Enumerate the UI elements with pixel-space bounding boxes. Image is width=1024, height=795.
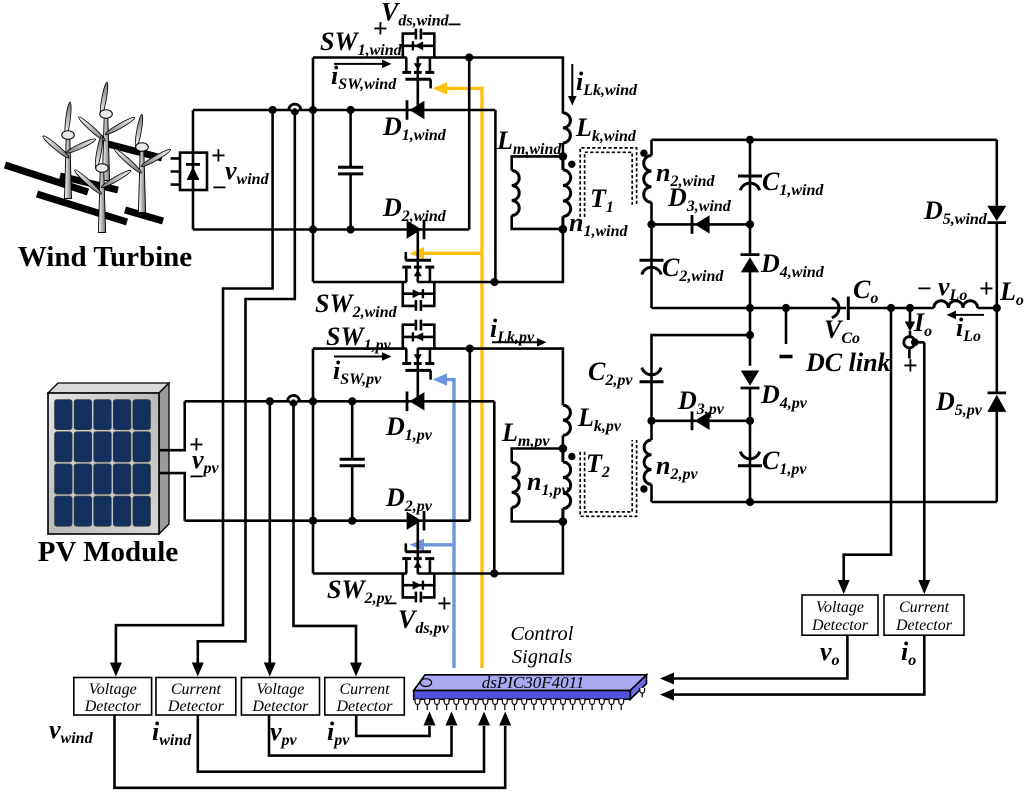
capacitor C1,wind (738, 176, 762, 190)
wire link SW1,pv to D2,pv (468, 349, 471, 521)
control signal trace orange (wind gates) (421, 88, 482, 668)
wire detector feed v,pv (268, 401, 271, 668)
svg-text:Signals: Signals (512, 646, 572, 668)
PV module illustration (48, 383, 169, 534)
wire i,pv detector to chip pin (356, 715, 429, 736)
svg-text:Detector: Detector (84, 698, 142, 715)
wire n2,pv column (650, 421, 653, 502)
svg-text:Wind Turbine: Wind Turbine (18, 241, 193, 273)
svg-text:Voltage: Voltage (816, 599, 864, 616)
wind turbine back-left (41, 102, 96, 199)
control signal trace blue (pv gates) (421, 380, 454, 668)
capacitor wind input filter (338, 167, 363, 174)
box voltage detector pv (241, 678, 319, 716)
wire C2,wind branch (650, 224, 653, 308)
svg-text:Detector: Detector (895, 617, 953, 634)
arrow vo line into chip (660, 673, 674, 685)
capacitor pv input filter (340, 459, 365, 466)
wire v,wind detector to chip pin (115, 715, 506, 788)
wire Lk,pv to node (562, 435, 565, 448)
wire pv + rail (185, 400, 495, 403)
wind turbine top (77, 82, 136, 181)
arrow into detector i,pv (350, 663, 362, 677)
capacitor C2,wind (640, 260, 664, 274)
svg-text:−: − (383, 589, 398, 618)
inductor Lm,wind (512, 171, 520, 216)
svg-text:+: + (211, 141, 226, 170)
inductor Lk,pv (563, 405, 571, 435)
wire wind - rail (193, 228, 469, 231)
inductor Lo (934, 301, 978, 308)
transformer T2 coupling dashes (580, 440, 636, 516)
wire C1,wind D4,wind column (749, 140, 752, 335)
wire SW1,pv drain side (313, 347, 407, 350)
diode D3,wind (692, 215, 710, 234)
wire Lm,wind branch (512, 156, 563, 229)
wire i,wind detector to chip pin (198, 715, 484, 772)
wire SW1,wind drain side (313, 56, 407, 59)
wind turbine front (73, 135, 132, 233)
wire D4,pv C1,pv column (749, 335, 752, 502)
wire SW1,wind source side to Lk,wind (417, 58, 563, 114)
svg-text:−: − (189, 462, 204, 491)
wire link SW1 top to D2 (468, 58, 471, 230)
diode D1,wind (407, 100, 424, 120)
svg-text:+: + (979, 274, 994, 303)
wind turbine right (113, 114, 172, 213)
wire SW1,wind body lead (416, 58, 419, 111)
wire SW1,wind left drop (312, 58, 315, 283)
wire SW2,pv rail right (417, 522, 563, 574)
wire D3,pv branch (652, 419, 751, 422)
mosfet SW1,wind (402, 29, 434, 89)
winding n2,pv (644, 440, 651, 484)
wire pv mid connector (652, 335, 751, 421)
chip pins (415, 699, 623, 710)
svg-text:Detector: Detector (811, 617, 869, 634)
wire dc link minus stub (785, 308, 788, 344)
arrow i,Lk,pv (492, 338, 547, 347)
wire pv - stub (160, 473, 185, 521)
mosfet SW2,pv (402, 543, 434, 602)
wire right rail D5 column (995, 140, 998, 502)
wire wind output top rail (652, 139, 997, 142)
wire detector feed i,wind (198, 111, 295, 668)
diode D5,wind (987, 206, 1006, 223)
svg-text:PV Module: PV Module (38, 536, 179, 568)
blue arrowhead SW1,pv gate (433, 373, 447, 385)
box current detector wind (156, 678, 236, 716)
svg-text:Current: Current (171, 681, 222, 698)
wire dc link minus mark (780, 355, 793, 359)
arrow chip pin feed 4 (499, 712, 511, 726)
svg-text:−: − (917, 274, 932, 303)
winding n2,wind (644, 156, 652, 203)
wire SW2,pv body lead (416, 521, 419, 574)
wire link D1,pv to SW2,pv rail (493, 401, 496, 573)
wire SW2,wind body lead (416, 230, 419, 283)
wire SW1,pv source side to Lk,pv (417, 349, 563, 406)
arrow i,SW,wind (334, 60, 392, 69)
wire wind + rail (193, 109, 495, 112)
wire SW1,pv body lead (416, 349, 419, 402)
diode D2,wind (407, 220, 424, 240)
arrow into detector v,pv (264, 663, 276, 677)
svg-text:Current: Current (899, 599, 950, 616)
wire dc link mid rail (652, 307, 997, 310)
microcontroller dsPIC30F4011 chip body (414, 675, 647, 700)
mosfet SW2,wind (402, 252, 434, 311)
svg-text:+: + (903, 351, 918, 380)
wire detector feed i,pv (294, 402, 357, 668)
wire D3,wind branch (652, 223, 751, 226)
wire rectifier ac stubs (171, 158, 180, 184)
svg-text:−: − (447, 10, 462, 39)
wire SW1,pv left drop (312, 349, 315, 574)
arrow into detector i,wind (192, 663, 204, 677)
wire SW2,wind rail right (417, 229, 563, 282)
wire pv - rail (185, 519, 470, 522)
box current detector pv (325, 678, 405, 716)
svg-text:Current: Current (339, 681, 390, 698)
blue arrowhead SW2,pv gate (410, 539, 424, 551)
wire wind rectifier loop left (192, 110, 195, 230)
svg-text:−: − (212, 173, 227, 202)
hop and dot on wind rail (289, 104, 301, 115)
inductor Lm,pv (512, 462, 520, 507)
mosfet SW1,pv (402, 320, 434, 380)
winding n1,pv (563, 449, 571, 522)
svg-text:+: + (437, 589, 452, 618)
arrow io line into chip (660, 689, 674, 701)
wire pv + stub (160, 401, 185, 450)
wire SW2,pv rail left (313, 572, 407, 575)
transformer polarity dots (568, 150, 648, 493)
arrow i,Lo (947, 311, 985, 320)
svg-text:+: + (373, 14, 388, 43)
wire detector feed i,o (923, 342, 926, 585)
arrow chip pin feed 2 (446, 712, 458, 726)
hop and dot on pv rail (287, 395, 299, 406)
wire link D1 to SW2 rail (494, 110, 497, 282)
orange arrowhead SW2,wind gate (410, 247, 424, 259)
diode D3,pv (692, 411, 710, 430)
arrow i,Lk,wind (568, 64, 577, 106)
inductor Lk,wind (563, 113, 571, 143)
svg-text:dsPIC30F4011: dsPIC30F4011 (482, 673, 585, 692)
svg-text:Control: Control (510, 623, 573, 645)
arrow chip pin feed 3 (478, 712, 490, 726)
capacitor C2,pv (640, 368, 664, 382)
wire pv filter cap branch (351, 401, 354, 520)
mosfet SW1,pv body diode and arrow (414, 333, 423, 342)
capacitor C1,pv (738, 452, 762, 466)
winding n1,wind (563, 156, 571, 229)
box voltage detector output (802, 595, 878, 635)
arrow i,SW,pv (334, 352, 392, 361)
svg-text:Detector: Detector (167, 698, 225, 715)
capacitor Co (832, 297, 849, 321)
diode D5,pv (987, 393, 1006, 412)
arrow into detector i,o (918, 580, 930, 594)
wire wind filter cap branch (349, 110, 352, 230)
svg-text:DC link: DC link (805, 348, 891, 377)
svg-text:Voltage: Voltage (256, 681, 304, 698)
svg-text:Voltage: Voltage (89, 681, 137, 698)
diode D2,pv (407, 511, 424, 531)
wire SW2,wind rail left (313, 281, 407, 284)
orange arrowhead SW1,wind gate (433, 82, 447, 94)
mosfet SW2,wind body diode and arrow (413, 289, 422, 298)
diode D1,pv (407, 392, 424, 412)
diode D4,wind (741, 255, 760, 273)
arrow into detector v,wind (110, 663, 122, 677)
wire output bottom rail (652, 501, 997, 504)
turbine ground shadows (5, 143, 163, 222)
wire io detector to chip (672, 635, 924, 694)
current source Io circle (904, 337, 915, 348)
wire detector feed v,o (844, 308, 891, 585)
wire n2,wind riser (650, 140, 653, 225)
wind turbine illustration (5, 82, 172, 233)
wire v,pv detector to chip pin (269, 715, 452, 756)
mosfet SW1,wind body diode and arrow (414, 41, 423, 50)
diode D4,pv (741, 371, 760, 389)
wire detector feed v,wind (116, 110, 273, 668)
box current detector output (884, 595, 964, 635)
wire Io source branch (909, 308, 924, 359)
svg-text:Detector: Detector (336, 698, 394, 715)
arrow Io (905, 322, 915, 332)
mosfet SW2,pv body diode and arrow (413, 581, 422, 590)
arrow chip pin feed 1 (424, 712, 436, 726)
chip side pin (640, 688, 645, 698)
box voltage detector wind (74, 678, 152, 716)
wire Lk,wind to node (562, 143, 565, 157)
arrow into detector v,o (838, 580, 850, 594)
svg-text:Detector: Detector (251, 698, 309, 715)
rectifier bridge box (180, 153, 207, 190)
wire vo detector to chip (672, 635, 847, 678)
wire Lm,pv branch (512, 449, 563, 522)
transformer T1 coupling dashes (580, 148, 636, 217)
